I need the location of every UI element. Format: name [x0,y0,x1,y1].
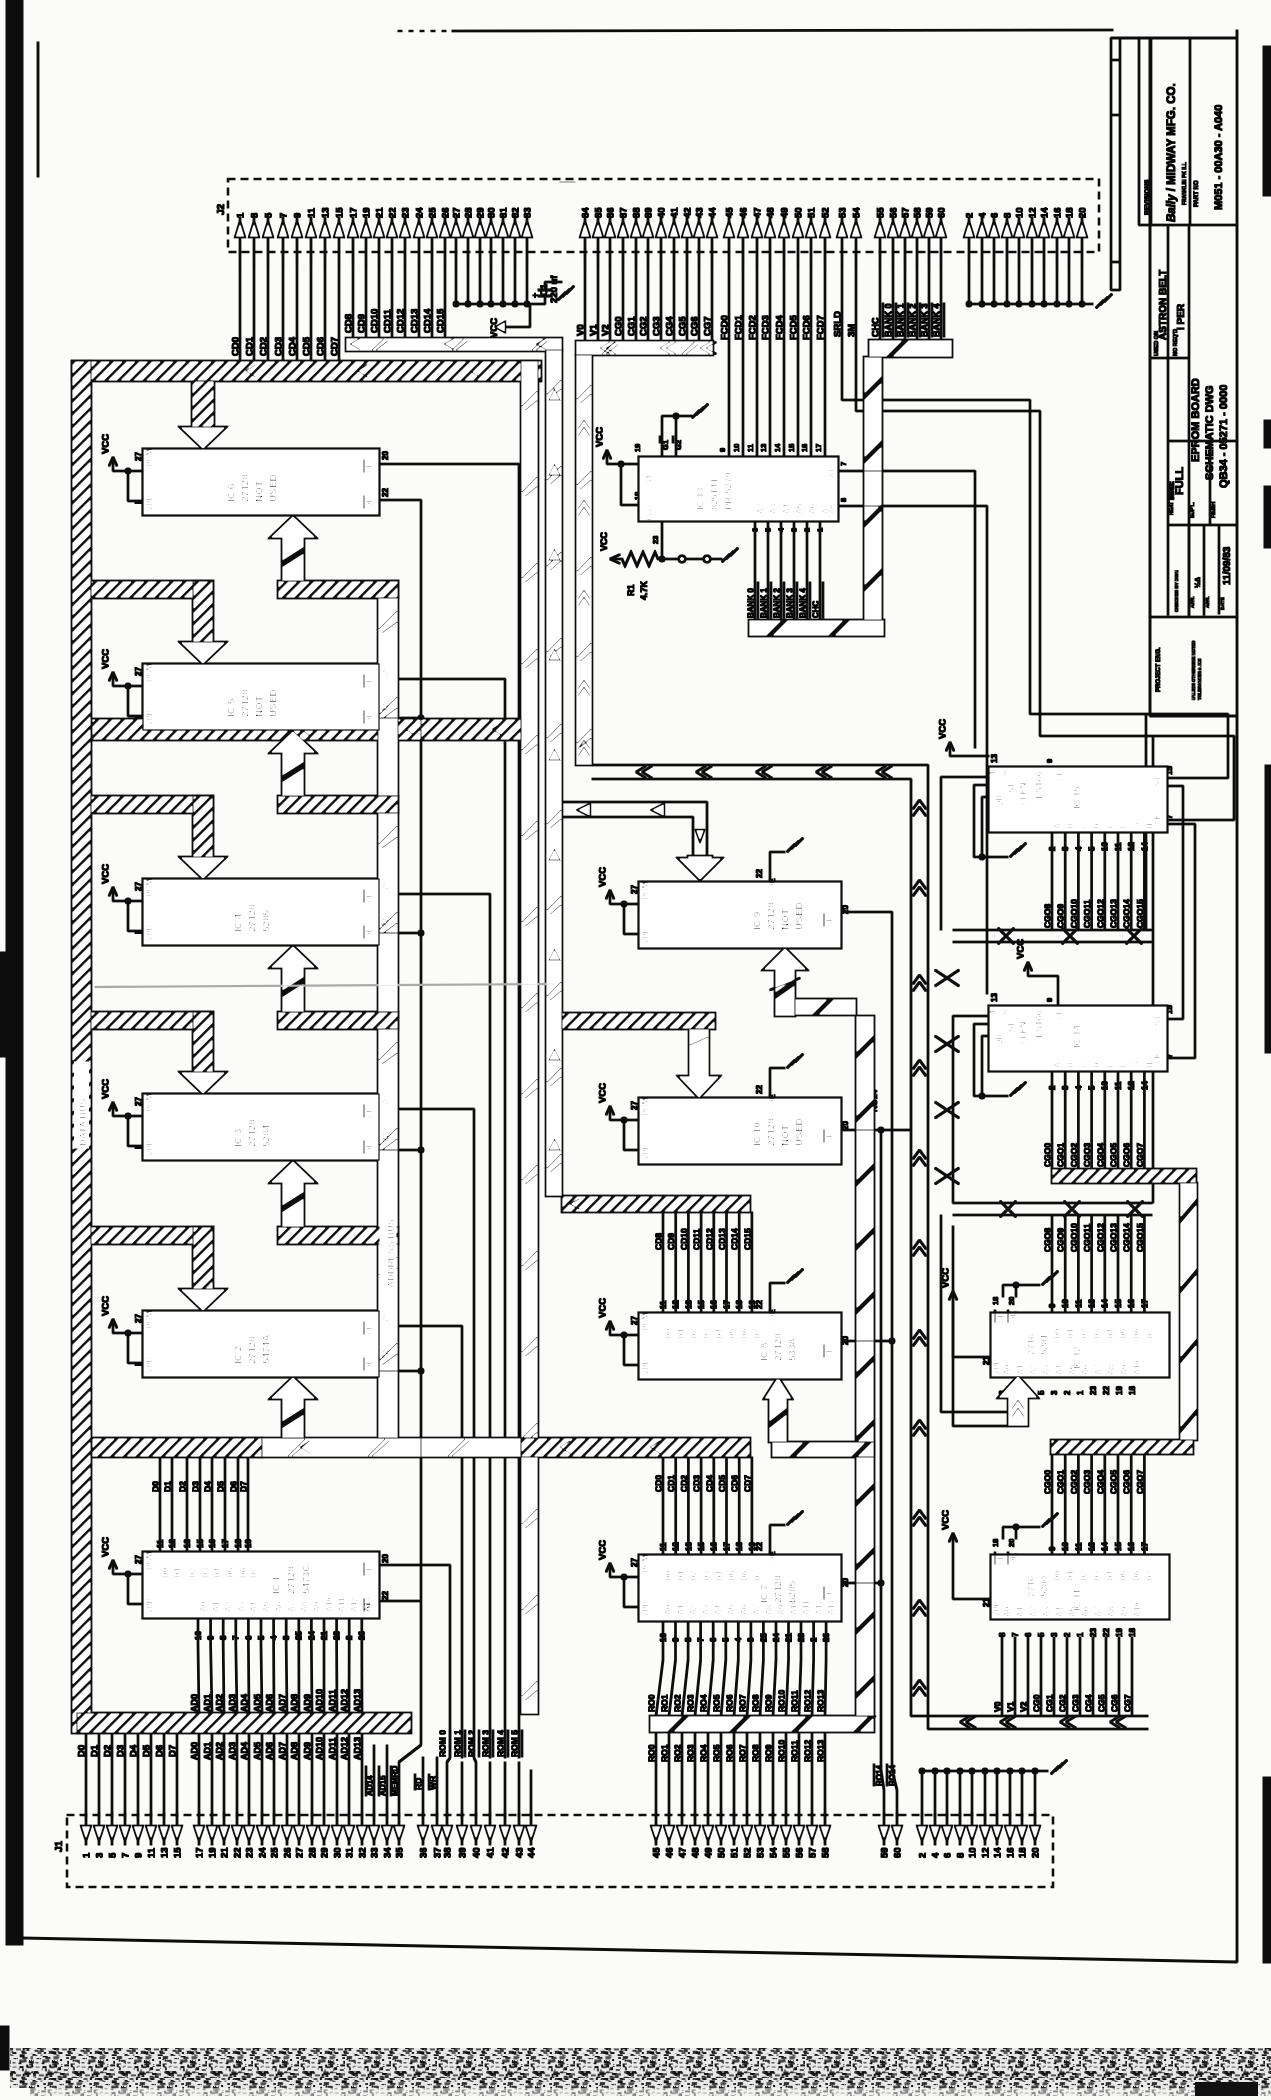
svg-text:FCD1: FCD1 [734,314,745,340]
svg-text:PGM: PGM [641,1312,650,1331]
svg-text:CGO1: CGO1 [1056,1470,1066,1494]
svg-text:G4: G4 [645,475,654,486]
svg-text:20: 20 [381,451,390,460]
svg-text:5285: 5285 [262,909,273,932]
svg-text:5473C: 5473C [302,1565,313,1594]
svg-text:D5: D5 [728,1570,737,1581]
svg-text:PART NO: PART NO [1194,180,1200,207]
svg-text:CD9: CD9 [357,314,368,333]
svg-text:25: 25 [427,207,438,218]
svg-text:ROM 2: ROM 2 [467,1730,477,1757]
svg-text:ROM 0: ROM 0 [438,1730,448,1757]
svg-text:6: 6 [1024,1632,1033,1637]
svg-text:A3: A3 [769,503,778,514]
svg-text:ROM 1: ROM 1 [453,1730,463,1757]
svg-text:60: 60 [892,1847,903,1858]
svg-text:A3: A3 [237,1601,246,1612]
svg-text:A3: A3 [1042,1606,1051,1617]
svg-text:18: 18 [991,1297,1000,1305]
svg-text:CGO11: CGO11 [1082,1223,1092,1252]
svg-text:40: 40 [471,1847,482,1858]
svg-text:A: A [1053,1062,1062,1068]
svg-text:CG2: CG2 [1058,1694,1068,1712]
svg-text:18: 18 [1017,1847,1028,1858]
svg-text:D0: D0 [77,1745,88,1757]
svg-text:CD9: CD9 [666,1233,676,1250]
svg-text:AD10: AD10 [315,1737,325,1760]
svg-text:47: 47 [677,1847,688,1858]
svg-text:RO7: RO7 [738,1694,748,1712]
svg-text:CD8: CD8 [654,1233,664,1250]
svg-text:IC 14: IC 14 [1072,1025,1083,1048]
svg-text:27: 27 [630,1101,639,1110]
svg-text:CD14: CD14 [423,308,434,333]
svg-text:11: 11 [746,444,755,452]
svg-text:CD13: CD13 [410,309,421,333]
svg-text:A5: A5 [262,1601,271,1612]
svg-text:AD5: AD5 [253,1742,263,1760]
svg-text:CGO6: CGO6 [1122,1470,1132,1494]
svg-text:A6: A6 [1081,1606,1090,1617]
svg-text:AD7: AD7 [278,1742,288,1760]
svg-text:CE: CE [365,1323,374,1335]
svg-text:CGO5: CGO5 [1109,1470,1119,1494]
svg-text:13: 13 [684,1300,693,1309]
svg-text:DATE: DATE [1220,596,1226,610]
svg-text:15: 15 [196,1539,205,1548]
svg-text:A1: A1 [677,1604,686,1615]
svg-text:A9: A9 [777,1604,786,1615]
svg-text:27128: 27128 [774,1333,785,1361]
svg-text:9: 9 [1048,1303,1057,1308]
svg-text:A1: A1 [1016,1606,1025,1617]
svg-text:SRLD: SRLD [833,311,844,337]
svg-text:17: 17 [221,1539,230,1548]
svg-text:D1: D1 [1066,1328,1075,1339]
svg-text:PGM: PGM [145,663,154,682]
svg-text:18: 18 [735,1300,744,1309]
svg-text:RO9: RO9 [764,1694,774,1712]
svg-text:BANK 1: BANK 1 [896,303,906,337]
svg-text:CD4: CD4 [704,1475,714,1492]
svg-text:8: 8 [839,498,848,502]
svg-text:QH: QH [995,1034,1004,1046]
svg-text:RO13: RO13 [816,1690,826,1712]
svg-text:AD11: AD11 [328,1689,338,1712]
svg-text:26: 26 [822,1633,831,1642]
svg-text:J1: J1 [54,1840,65,1852]
svg-text:CGO0: CGO0 [1043,1470,1053,1494]
svg-text:11: 11 [146,1847,157,1858]
svg-text:57: 57 [900,207,911,218]
svg-text:9: 9 [1045,759,1054,763]
svg-text:27: 27 [630,1316,639,1325]
svg-text:42: 42 [682,207,693,218]
svg-text:46: 46 [738,207,749,218]
svg-text:PGM: PGM [145,448,154,467]
svg-text:A13: A13 [827,1600,836,1615]
svg-text:A11: A11 [802,1600,811,1615]
svg-text:D0: D0 [664,1570,673,1581]
svg-text:22: 22 [381,1350,390,1359]
svg-text:3: 3 [747,1637,756,1642]
svg-text:CE: CE [996,1311,1005,1323]
svg-text:NOT: NOT [255,481,266,502]
svg-text:22: 22 [1102,1628,1111,1637]
svg-text:ARR.: ARR. [1205,596,1211,608]
svg-text:RO6: RO6 [725,1694,735,1712]
svg-text:220 uf: 220 uf [549,275,560,303]
svg-text:47: 47 [752,207,763,218]
svg-text:14: 14 [1039,207,1050,218]
svg-text:D6: D6 [155,1745,166,1757]
svg-text:A2: A2 [1029,1606,1038,1617]
svg-text:A5: A5 [795,503,804,514]
svg-text:I: I [134,1147,143,1149]
svg-text:CG0: CG0 [614,316,625,336]
svg-text:D7: D7 [753,1328,762,1339]
svg-text:CE: CE [365,1106,374,1118]
svg-text:I: I [134,1364,143,1366]
svg-text:9: 9 [1045,998,1054,1002]
svg-text:V2: V2 [601,324,612,336]
svg-text:A11: A11 [338,1597,347,1612]
svg-text:19: 19 [207,1847,218,1858]
svg-text:AD1: AD1 [203,1742,213,1760]
svg-text:3: 3 [1050,1390,1059,1395]
svg-text:CD5: CD5 [717,1475,727,1492]
svg-text:10: 10 [1014,207,1025,218]
svg-text:D6: D6 [740,1328,749,1339]
svg-text:21: 21 [374,207,385,218]
svg-text:PGM: PGM [145,1310,154,1329]
svg-text:D2: D2 [178,1481,188,1492]
svg-text:20: 20 [381,1096,390,1105]
svg-text:PR-5279: PR-5279 [723,473,734,511]
svg-text:D6: D6 [239,1567,248,1578]
svg-text:CE: CE [825,1588,834,1600]
svg-text:M051 - 00A30 - A040: M051 - 00A30 - A040 [1213,105,1225,210]
svg-text:A8: A8 [300,1601,309,1612]
svg-text:RO3: RO3 [686,1694,696,1712]
svg-text:D2: D2 [689,1328,698,1339]
svg-text:BANK 4: BANK 4 [932,303,942,337]
svg-text:CD14: CD14 [730,1228,740,1250]
svg-text:7: 7 [839,462,848,466]
svg-text:13: 13 [183,1539,192,1548]
svg-text:32: 32 [357,1847,368,1858]
svg-text:D6: D6 [740,1570,749,1581]
svg-text:25: 25 [269,1847,280,1858]
svg-text:USED: USED [269,474,280,502]
svg-text:D3: D3 [702,1570,711,1581]
svg-text:6: 6 [1000,771,1009,775]
svg-text:IC 2: IC 2 [234,1345,245,1364]
svg-text:11: 11 [659,1542,668,1551]
svg-text:9: 9 [718,448,727,452]
svg-text:IC 15: IC 15 [1072,786,1083,809]
svg-text:CGO10: CGO10 [1069,1223,1079,1252]
svg-text:A4: A4 [1055,1364,1064,1375]
svg-text:CGO3: CGO3 [1082,1470,1092,1494]
svg-text:D4: D4 [203,1481,213,1492]
svg-text:15: 15 [1114,1542,1123,1551]
svg-text:FRANKLIN PK ILL: FRANKLIN PK ILL [1182,162,1188,205]
svg-text:CD15: CD15 [742,1228,752,1250]
svg-text:ARR.: ARR. [1190,596,1196,608]
svg-text:D4: D4 [1106,1570,1115,1581]
svg-text:V1: V1 [589,324,600,336]
svg-text:VPP: VPP [145,1139,154,1156]
svg-text:11: 11 [1074,1542,1083,1551]
svg-text:RO9: RO9 [764,1744,774,1762]
svg-text:RO12: RO12 [803,1690,813,1712]
svg-text:19: 19 [244,1539,253,1548]
svg-text:AD13: AD13 [353,1737,363,1760]
svg-text:D7: D7 [1145,1328,1154,1339]
svg-text:VCC: VCC [101,1537,112,1557]
svg-text:8: 8 [998,1632,1007,1637]
svg-text:A10: A10 [325,1597,334,1612]
svg-text:ASTRON BELT: ASTRON BELT [1158,270,1169,340]
svg-text:20: 20 [1077,207,1088,218]
svg-text:CD1: CD1 [245,336,256,356]
svg-text:AD4: AD4 [240,1742,250,1760]
svg-text:RO7: RO7 [738,1744,748,1762]
svg-text:4: 4 [977,212,988,218]
svg-text:G3: G3 [645,509,654,520]
svg-text:CG6: CG6 [690,316,701,336]
svg-text:A8: A8 [1107,1364,1116,1375]
svg-text:23: 23 [244,1847,255,1858]
svg-text:CGO15: CGO15 [1135,899,1145,928]
svg-text:13: 13 [684,1542,693,1551]
svg-text:CGO3: CGO3 [1082,1143,1092,1167]
svg-text:USED: USED [795,902,806,930]
svg-text:53: 53 [837,207,848,218]
svg-text:17: 17 [348,207,359,218]
svg-text:EPROM BOARD: EPROM BOARD [1190,378,1202,462]
svg-text:IC 5: IC 5 [227,698,238,717]
svg-text:18: 18 [1128,1386,1137,1395]
svg-text:I: I [134,717,143,719]
svg-text:A10: A10 [1133,1360,1142,1375]
svg-text:CG1: CG1 [627,316,638,336]
svg-text:48: 48 [690,1847,701,1858]
svg-text:D1: D1 [677,1570,686,1581]
svg-text:OE: OE [365,927,374,939]
svg-text:10: 10 [1061,1542,1070,1551]
svg-text:IC 13: IC 13 [695,487,706,510]
svg-text:27: 27 [134,667,143,676]
svg-text:17: 17 [1140,1299,1149,1308]
svg-text:CGO12: CGO12 [1095,1223,1105,1252]
svg-text:D7: D7 [249,1567,258,1578]
svg-text:21: 21 [219,1847,230,1858]
svg-text:A0: A0 [1003,1364,1012,1375]
svg-text:RO12: RO12 [803,1740,813,1762]
svg-text:23: 23 [797,1633,806,1642]
svg-text:D2: D2 [1079,1570,1088,1581]
svg-text:CD2: CD2 [679,1475,689,1492]
svg-text:35: 35 [394,1847,405,1858]
svg-text:19: 19 [1115,1386,1124,1395]
svg-text:PGM: PGM [641,1554,650,1573]
svg-text:RO4: RO4 [699,1694,709,1712]
svg-text:CLKN: CLKN [1019,783,1028,805]
svg-text:VPP: VPP [145,924,154,941]
svg-text:A3: A3 [1042,1364,1051,1375]
svg-text:VCC: VCC [598,867,609,887]
svg-text:RO5: RO5 [712,1694,722,1712]
svg-text:30: 30 [486,207,497,218]
svg-text:18: 18 [633,492,642,500]
svg-text:RO8: RO8 [751,1694,761,1712]
svg-text:2716: 2716 [1026,1334,1037,1355]
svg-text:43: 43 [694,207,705,218]
svg-text:D2: D2 [1079,1328,1088,1339]
svg-text:20: 20 [1007,1297,1016,1305]
svg-text:RO14: RO14 [888,1765,897,1786]
svg-text:52: 52 [820,207,831,218]
svg-text:56: 56 [794,1847,805,1858]
svg-text:IC 9: IC 9 [753,911,764,930]
svg-text:BANK 4: BANK 4 [799,588,808,618]
svg-text:46: 46 [664,1847,675,1858]
svg-text:OE: OE [365,712,374,724]
svg-text:CD15: CD15 [436,308,447,333]
svg-text:28: 28 [307,1847,318,1858]
svg-text:RO0: RO0 [647,1744,657,1762]
svg-text:15: 15 [1165,766,1174,775]
svg-text:D3: D3 [191,1481,201,1492]
svg-text:22: 22 [381,1133,390,1142]
svg-text:CG7: CG7 [1123,1694,1133,1712]
svg-text:27128: 27128 [287,1566,298,1594]
svg-text:1: 1 [1076,1390,1085,1395]
svg-text:CD2: CD2 [259,337,270,356]
svg-text:11: 11 [156,1539,165,1548]
svg-text:1: 1 [988,1010,997,1014]
svg-text:AD3: AD3 [228,1742,238,1760]
svg-text:VPP: VPP [641,1143,650,1160]
svg-text:13: 13 [990,754,999,763]
svg-text:18: 18 [991,1539,1000,1547]
svg-text:VCC: VCC [101,864,112,884]
svg-text:CD3: CD3 [274,337,285,356]
svg-text:22: 22 [381,703,390,712]
svg-text:VCC: VCC [599,531,609,551]
svg-text:17: 17 [722,1542,731,1551]
svg-text:TOLERANCES ± .010: TOLERANCES ± .010 [1197,658,1202,700]
svg-text:RO14: RO14 [875,1765,884,1786]
svg-text:B: B [1066,823,1075,829]
svg-text:CD0: CD0 [231,337,242,356]
svg-text:D0: D0 [1053,1570,1062,1581]
svg-text:LS166: LS166 [1034,771,1045,799]
svg-text:53: 53 [755,1847,766,1858]
svg-text:BANK 1: BANK 1 [760,588,769,618]
svg-text:57: 57 [807,1847,818,1858]
svg-text:J2: J2 [216,203,227,215]
svg-text:16: 16 [1052,207,1063,218]
svg-text:20: 20 [381,881,390,890]
svg-text:21: 21 [784,1633,793,1642]
svg-text:LS166: LS166 [1034,1010,1045,1038]
svg-text:27: 27 [451,207,462,218]
svg-text:A12: A12 [350,1597,359,1612]
svg-text:A0: A0 [827,504,836,514]
svg-text:FULL: FULL [1174,467,1186,495]
svg-text:DATA BUS: DATA BUS [78,1099,89,1146]
svg-text:7: 7 [697,1637,706,1642]
svg-text:CE: CE [365,676,374,688]
svg-text:E: E [1106,1062,1115,1068]
svg-text:RO3: RO3 [686,1744,696,1762]
svg-text:PGM: PGM [145,1551,154,1570]
svg-text:CGO10: CGO10 [1069,899,1079,928]
svg-text:16: 16 [710,1542,719,1551]
svg-text:RO10: RO10 [777,1740,787,1762]
svg-text:CL: CL [1055,1009,1064,1020]
svg-text:22: 22 [755,1085,764,1094]
svg-text:27: 27 [134,1314,143,1323]
svg-text:A13: A13 [363,1597,372,1612]
svg-text:CG3: CG3 [1071,1694,1081,1712]
svg-text:58: 58 [912,207,923,218]
svg-text:16: 16 [1127,1542,1136,1551]
svg-text:R1: R1 [626,584,636,596]
svg-text:VPP: VPP [145,494,154,511]
svg-text:A9: A9 [1120,1606,1129,1617]
svg-text:I: I [134,932,143,934]
svg-text:D4: D4 [715,1570,724,1581]
svg-text:A4: A4 [714,1604,723,1615]
svg-text:5281: 5281 [1039,1333,1050,1355]
svg-text:29: 29 [475,207,486,218]
svg-text:10: 10 [659,1633,668,1642]
svg-text:D3: D3 [702,1328,711,1339]
svg-text:23: 23 [400,207,411,218]
svg-text:FCD0: FCD0 [720,315,731,340]
svg-text:RO10: RO10 [777,1690,787,1712]
svg-text:14: 14 [992,1847,1003,1858]
svg-text:BANK 0: BANK 0 [884,303,894,337]
svg-text:5: 5 [722,1637,731,1642]
svg-text:AD8: AD8 [290,1742,300,1760]
svg-text:CE: CE [365,461,374,473]
svg-text:13: 13 [1088,1542,1097,1551]
svg-text:16: 16 [710,1300,719,1309]
svg-text:45: 45 [724,207,735,218]
svg-text:58: 58 [820,1847,831,1858]
svg-text:16: 16 [1005,1847,1016,1858]
svg-text:CD6: CD6 [316,337,327,356]
svg-text:CLKN: CLKN [1019,1022,1028,1044]
svg-text:CG6: CG6 [1110,1694,1120,1712]
svg-text:CGO2: CGO2 [1069,1143,1079,1167]
svg-text:CD4: CD4 [288,336,299,356]
svg-text:13: 13 [1088,1299,1097,1308]
svg-text:31: 31 [498,207,509,218]
svg-text:IC 8: IC 8 [760,1342,771,1361]
svg-text:AD12: AD12 [340,1737,350,1760]
svg-text:6: 6 [989,213,1000,218]
svg-text:D1: D1 [163,1481,173,1492]
svg-text:CG7: CG7 [703,316,714,336]
svg-text:AD8: AD8 [290,1694,300,1712]
svg-text:V0: V0 [576,324,587,336]
